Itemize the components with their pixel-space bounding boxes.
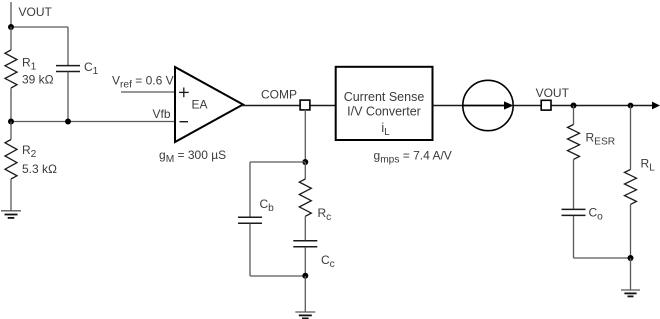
junction dot VOUT/RESR [571, 103, 577, 109]
wire Cc bottom lead [304, 247, 306, 276]
op-amp plus input mark [179, 88, 189, 98]
svg-text:VOUT: VOUT [19, 5, 53, 19]
wire Vfb rail [11, 121, 175, 123]
wire Rc top lead [304, 162, 306, 179]
junction dot R1/R2/Vfb [8, 119, 14, 125]
svg-text:Current Sense: Current Sense [344, 90, 425, 104]
ground (left, below R2) [1, 211, 21, 218]
current source (dependent, circle) [463, 80, 513, 130]
wire arrow line through current source [463, 105, 506, 107]
wire R2 bottom lead [10, 179, 12, 211]
wire R1 top lead [10, 27, 12, 50]
junction dot COMP/Cb/Rc [302, 159, 308, 165]
wire Rc to Cc [304, 216, 306, 240]
op-amp minus input mark [180, 121, 189, 123]
wire Cb top lead [249, 162, 251, 217]
wire to right ground [630, 258, 632, 290]
ground (middle, compensation) [295, 312, 315, 318]
wire COMP to converter box [310, 105, 337, 107]
wire R2 top lead [10, 122, 12, 140]
svg-text:EA: EA [192, 98, 208, 112]
svg-text:I/V Converter: I/V Converter [347, 104, 421, 118]
arrowhead inside current source [504, 101, 514, 109]
wire VOUT rail to load [551, 105, 653, 107]
wire Cb bottom lead [249, 224, 251, 276]
junction dot VOUT/RL [628, 103, 634, 109]
wire converter to current source [433, 105, 465, 107]
wire Vref input [121, 91, 175, 93]
node COMP terminal square [300, 100, 310, 110]
wire top horizontal to C1 branch [11, 26, 68, 28]
svg-text:COMP: COMP [261, 88, 297, 102]
op-amp EA (error amplifier) [175, 67, 243, 142]
wire VOUT top stub [10, 2, 12, 27]
wire Cb branch bottom return [250, 275, 305, 277]
wire Co bottom lead [573, 216, 575, 258]
capacitor Co [562, 209, 586, 215]
resistor Rc [299, 179, 311, 216]
wire bottom return to RL branch [574, 257, 631, 259]
wire RL top lead [630, 106, 632, 170]
svg-text:VOUT: VOUT [536, 86, 570, 100]
wire RL bottom lead [630, 204, 632, 258]
svg-text:39 kΩ: 39 kΩ [22, 72, 54, 86]
wire R1 bottom lead [10, 88, 12, 122]
resistor R1 39 kOhm [5, 50, 17, 88]
wire RESR top lead [573, 106, 575, 125]
capacitor C1 [56, 66, 80, 72]
block U1 Current Sense I/V Converter [336, 67, 433, 140]
junction dot at VOUT/R1/C1 [8, 24, 14, 30]
wire current source to VOUT [513, 105, 541, 107]
capacitor Cc [293, 241, 317, 247]
junction dot Co/RL return [628, 255, 634, 261]
ground (right, load) [621, 290, 640, 296]
resistor RL [625, 170, 637, 205]
svg-text:Vfb: Vfb [153, 107, 171, 121]
arrowhead output rail right end [652, 102, 660, 110]
resistor RESR [568, 125, 580, 160]
wire C1 top lead [67, 27, 69, 65]
wire RESR to Co [573, 159, 575, 208]
svg-text:5.3 kΩ: 5.3 kΩ [22, 162, 57, 176]
node VOUT terminal square [541, 100, 551, 110]
resistor R2 5.3 kOhm [5, 140, 17, 180]
wire COMP down to compensation [304, 110, 306, 163]
wire EA output to COMP [242, 105, 301, 107]
capacitor Cb [238, 217, 262, 223]
junction dot Cb/Cc return [302, 273, 308, 279]
wire to middle ground [304, 276, 306, 312]
wire to Cb branch (top) [250, 161, 305, 163]
wire C1 bottom lead [67, 72, 69, 122]
junction dot C1 bottom [65, 119, 71, 125]
